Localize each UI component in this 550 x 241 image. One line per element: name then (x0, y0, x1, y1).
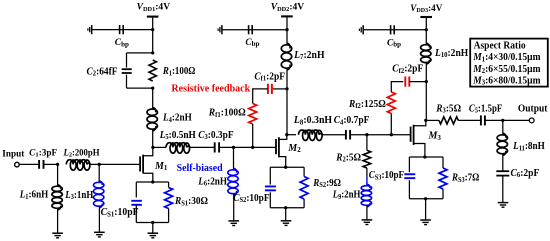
wire Rf2 corner to Cf2 (391, 82, 403, 92)
capacitor C6 (496, 170, 509, 172)
capacitor Cf2 (404, 77, 406, 87)
wire R2 to L9 upper (366, 168, 368, 177)
wire S2 left upper (269, 167, 271, 184)
resistor Rf1 (249, 104, 257, 125)
ground Cbp1 sideways (88, 25, 92, 34)
svg-text:C1:3pF: C1:3pF (29, 147, 57, 158)
wire input to C1 (19, 163, 38, 165)
capacitor CS3 (404, 173, 415, 175)
ground C6 (498, 203, 509, 208)
node S2 bottom junction (284, 206, 287, 209)
wire drain M3 to R3 (426, 119, 439, 121)
wire L4 to drain node M1 (152, 130, 154, 148)
capacitor Cbp1 (119, 25, 121, 34)
wire C6 to ground (502, 176, 504, 203)
svg-text:C4:0.7pF: C4:0.7pF (334, 115, 370, 126)
svg-text:Cf1:2pF: Cf1:2pF (254, 71, 285, 82)
svg-text:R3:5Ω: R3:5Ω (435, 103, 461, 114)
resistor Rf2 (387, 92, 395, 114)
wire VDD2 bar down to L7 (286, 17, 288, 44)
inductor L6 (228, 168, 238, 196)
inductor L4 (147, 107, 157, 131)
node Rf2 gate junction (390, 133, 393, 136)
svg-text:RS1:30Ω: RS1:30Ω (174, 196, 208, 207)
wire S2 left lower (269, 192, 271, 208)
wire R3 to C5 (458, 119, 480, 121)
transistor M3 gate bar (410, 127, 412, 142)
wire drain M1 to L5 (153, 146, 166, 148)
wire C4 to M3 gate (351, 134, 411, 136)
node R1/C2 bottom junction (151, 86, 154, 89)
wire node B to M1 gate (99, 163, 139, 165)
wire L11 to C6 (502, 154, 504, 171)
transistor M3 channel bar (413, 125, 415, 145)
terminal output circle (529, 118, 534, 123)
wire S2 top rail (270, 166, 304, 168)
wire VDD1 bar to Cbp node (152, 18, 154, 53)
capacitor Cf1 (267, 84, 269, 94)
wire Cf2 right (409, 81, 426, 83)
svg-text:C6:2pF: C6:2pF (511, 168, 540, 179)
resistor RS1 (165, 188, 173, 209)
wire L7 to Cf1 node (286, 69, 288, 135)
wire C1 to node A (44, 163, 58, 165)
svg-text:L4:2nH: L4:2nH (162, 113, 192, 124)
wire output node down to L11 (502, 120, 504, 134)
wire L10 to Cf2 node (425, 63, 427, 121)
wire L6 branch down (233, 147, 235, 169)
capacitor CS2 (265, 185, 276, 187)
node Cf1 junction (285, 87, 288, 90)
svg-text:C2:64fF: C2:64fF (87, 66, 118, 77)
capacitor C1 (38, 160, 40, 169)
node M1 source rail top (151, 180, 154, 183)
terminal input circle (15, 162, 20, 167)
svg-text:Cbp: Cbp (387, 38, 401, 48)
wire L1 to ground (57, 209, 59, 234)
wire Cf1 left and corner (253, 89, 268, 104)
svg-text:C5:1.5pF: C5:1.5pF (469, 103, 502, 114)
node M1 drain (151, 146, 154, 149)
wire S3 left lower (408, 180, 410, 199)
transistor M2 channel bar (278, 137, 280, 157)
resistor RS3 (439, 168, 447, 189)
power VDD1 bar (147, 16, 159, 18)
ground L9 (362, 220, 373, 225)
transistor M3 drain arm (414, 120, 426, 125)
wire C2 left upper (126, 53, 128, 68)
wire S1 right lower (168, 209, 170, 223)
transistor M2 source arm (279, 157, 286, 168)
wire R2 to L9 lower blue (366, 177, 368, 186)
capacitor C5 (480, 115, 482, 125)
svg-text:R2:5Ω: R2:5Ω (335, 152, 361, 163)
wire L8 to C4 (322, 134, 345, 136)
svg-text:Cbp: Cbp (115, 38, 129, 48)
svg-text:CS1:10pF: CS1:10pF (101, 207, 139, 218)
wire S3 bottom rail (409, 198, 443, 200)
node S3 bottom junction (424, 197, 427, 200)
capacitor Cbp2 (248, 25, 250, 34)
svg-text:Resistive feedback: Resistive feedback (171, 84, 250, 95)
wire VDD3 bar down to L10 (425, 18, 427, 45)
wire R2 branch upper (366, 135, 368, 151)
wire C2 top rail (127, 52, 153, 54)
svg-text:Cf2:2pF: Cf2:2pF (392, 64, 423, 75)
wire R1 bottom to L4 (152, 88, 154, 109)
inductor L2 (66, 160, 90, 171)
ground M2 source (281, 221, 292, 226)
svg-text:Self-biased: Self-biased (177, 163, 223, 174)
node output branch (501, 119, 504, 122)
node VDD3/Cbp3 junction (425, 28, 428, 31)
ground Cbp3 sideways (359, 25, 363, 34)
svg-text:L9:2nH: L9:2nH (332, 190, 361, 201)
node M3 drain (424, 119, 427, 122)
svg-text:L6:2nH: L6:2nH (197, 176, 227, 187)
svg-text:Aspect Ratio: Aspect Ratio (474, 40, 526, 52)
capacitor C4 (345, 130, 347, 140)
svg-text:RS2:9Ω: RS2:9Ω (312, 178, 341, 189)
wire output node to terminal (503, 119, 529, 121)
svg-text:L1:6nH: L1:6nH (19, 190, 49, 201)
svg-text:L11:8nH: L11:8nH (512, 141, 545, 152)
inductor L11 (497, 133, 507, 156)
capacitor Cbp3 (390, 25, 392, 34)
node Cf2 junction (425, 80, 428, 83)
wire L5 to C3 (190, 146, 214, 148)
inductor L9 (361, 184, 371, 207)
svg-text:RS3:7Ω: RS3:7Ω (451, 173, 479, 184)
svg-text:C3:0.3pF: C3:0.3pF (198, 130, 233, 141)
ground Cbp2 sideways (218, 25, 222, 34)
svg-text:CS3:10pF: CS3:10pF (369, 170, 404, 181)
inductor L1 (52, 185, 62, 211)
wire C3 to M2 gate (220, 146, 276, 148)
svg-text:R1:100Ω: R1:100Ω (162, 66, 195, 77)
power VDD2 bar (281, 15, 293, 17)
capacitor C3 (214, 142, 216, 152)
transistor M1 source arm (143, 173, 153, 182)
wire S2 bottom rail (270, 207, 304, 209)
wire S3 right upper (442, 157, 444, 168)
wire L2 to node B (90, 163, 99, 165)
wire Cbp1 branch (92, 29, 153, 31)
node B after L2 (98, 163, 101, 166)
svg-text:Cbp: Cbp (245, 38, 259, 48)
transistor M1 drain arm (143, 147, 153, 155)
wire Rf2 to gate line (390, 114, 392, 135)
power VDD3 bar (420, 16, 432, 18)
node VDD1/Cbp1 junction (151, 28, 154, 31)
svg-text:Input: Input (2, 149, 24, 159)
ground L1 (52, 233, 63, 238)
svg-text:L5:0.5nH: L5:0.5nH (159, 130, 196, 141)
wire Rf1 to gate line (252, 124, 254, 147)
ground M3 source (420, 220, 431, 225)
node L6 branch junction (232, 146, 235, 149)
wire Cf1 right (273, 88, 287, 90)
node M3 source rail top (423, 155, 426, 158)
resistor RS2 (300, 177, 308, 200)
svg-text:L10:2nH: L10:2nH (434, 48, 468, 59)
inductor L7 (281, 43, 291, 70)
wire Cbp3 branch (364, 29, 427, 31)
wire L6 to ground (233, 194, 235, 221)
svg-text:Rf1:100Ω: Rf1:100Ω (208, 108, 246, 119)
wire S3 left upper (408, 157, 410, 172)
wire S2 right upper (303, 167, 305, 176)
wire S1 top rail (136, 181, 168, 183)
svg-text:L8:0.3nH: L8:0.3nH (293, 115, 332, 126)
wire S1 left upper (135, 182, 137, 198)
transistor M1 gate bar (139, 156, 141, 171)
wire C2 bottom rail (127, 87, 153, 89)
wire S3 to ground (425, 199, 427, 220)
svg-text:L7:2nH: L7:2nH (293, 50, 325, 61)
transistor M1 channel bar (142, 155, 144, 174)
wire S1 to ground (152, 223, 154, 234)
capacitor CS1 (131, 200, 142, 202)
svg-text:L3:1nH: L3:1nH (64, 190, 93, 201)
wire S3 top rail (409, 156, 443, 158)
svg-text:Rf2:125Ω: Rf2:125Ω (348, 99, 386, 110)
resistor R1 (149, 60, 156, 81)
wire S2 right lower (303, 199, 305, 208)
inductor L10 (421, 43, 431, 64)
wire L9 to ground (366, 206, 368, 220)
capacitor C2 (122, 68, 132, 70)
inductor L8 (299, 130, 323, 140)
resistor R2 (363, 150, 371, 168)
wire node A down to L1 (57, 164, 59, 186)
svg-text:Output: Output (518, 104, 548, 115)
transistor M2 drain arm (279, 135, 287, 140)
svg-text:L2:200pH: L2:200pH (63, 147, 100, 158)
wire C2 left lower (126, 75, 128, 88)
wire drain M2 to L8 (287, 134, 296, 136)
wire S3 right lower (442, 189, 444, 199)
wire S1 right upper (168, 182, 170, 188)
inductor L5 (166, 143, 190, 154)
inductor L3 (94, 181, 104, 209)
node M2 drain (285, 133, 288, 136)
aspect ratio box (470, 39, 548, 87)
wire node B down to L3 (98, 164, 100, 182)
ground L6 (228, 221, 239, 226)
node M2 source rail top (284, 166, 287, 169)
ground M1 source (148, 233, 159, 238)
wire L3 to ground (98, 207, 100, 233)
resistor R3 (439, 117, 458, 124)
node R2 branch junction (365, 133, 368, 136)
transistor M2 gate bar (275, 139, 277, 154)
wire Cbp2 branch (222, 29, 287, 31)
wire S1 bottom rail (136, 222, 168, 224)
wire S1 left lower (135, 205, 137, 222)
node VDD2/Cbp2 junction (285, 28, 288, 31)
transistor M3 source arm (414, 144, 425, 158)
wire C5 to output node (485, 119, 502, 121)
node A after C1 (56, 163, 59, 166)
node Rf1 gate junction (251, 146, 254, 149)
node R1/C2 top junction (151, 51, 154, 54)
ground L3 (94, 232, 105, 237)
svg-text:CS2:10pF: CS2:10pF (233, 193, 269, 204)
node S1 bottom junction (151, 221, 154, 224)
wire S2 to ground (285, 208, 287, 221)
